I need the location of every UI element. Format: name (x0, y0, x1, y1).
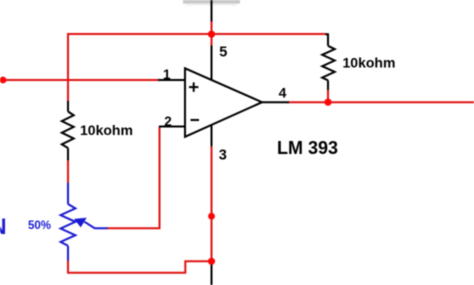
svg-text:2: 2 (164, 114, 172, 129)
svg-text:50%: 50% (28, 220, 51, 232)
svg-text:10kohm: 10kohm (80, 122, 133, 138)
svg-text:N: N (0, 214, 7, 239)
svg-text:3: 3 (219, 148, 227, 164)
svg-text:5: 5 (219, 45, 227, 61)
svg-text:4: 4 (279, 85, 287, 101)
svg-text:1: 1 (163, 67, 171, 82)
svg-text:10kohm: 10kohm (343, 54, 396, 70)
svg-text:LM 393: LM 393 (277, 138, 338, 158)
